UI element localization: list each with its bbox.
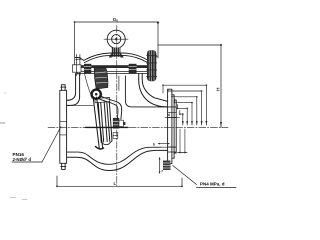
right flange raised face	[174, 100, 176, 153]
eye bolt left	[76, 55, 80, 76]
edge mark left	[0, 122, 5, 124]
nested dim bracket 4	[175, 100, 193, 126]
svg-text:2-NØd² d: 2-NØd² d	[13, 157, 32, 162]
left flange plate	[60, 90, 67, 163]
stem flare dark wedges	[109, 53, 112, 58]
bonnet dome outer	[75, 53, 157, 60]
bonnet dome inner	[85, 55, 148, 62]
disc nut	[113, 118, 119, 128]
svg-text:PN16: PN16	[13, 152, 25, 157]
chamber right inner wall	[125, 76, 176, 107]
outlet bore bottom line	[161, 146, 176, 148]
svg-text:H: H	[215, 87, 221, 91]
right flange bolt hole top	[168, 112, 176, 117]
inlet bore bottom inner	[67, 152, 89, 156]
dimension L line	[57, 185, 182, 187]
bolt circle marks below	[178, 152, 188, 154]
centerline horizontal (pipe axis)	[48, 127, 228, 129]
small dim d2 (bolt hole)	[165, 116, 180, 118]
seat top edge	[92, 97, 99, 99]
cap circle outer	[107, 30, 125, 48]
disc lock box	[113, 133, 118, 139]
hinge boss	[94, 68, 108, 90]
hinge pivot	[92, 90, 101, 99]
small dim f	[159, 158, 161, 173]
svg-text:D0: D0	[113, 17, 118, 23]
cap crosshair	[104, 38, 128, 40]
left flange bolt hole lines	[60, 122, 67, 135]
dimension Do right extension	[157, 22, 159, 58]
body left wall outer	[67, 74, 76, 101]
seat bottom dark	[96, 147, 104, 149]
inlet bore top line	[67, 104, 94, 106]
cap circle inner	[112, 35, 121, 44]
svg-text:PN4 MPa, d: PN4 MPa, d	[200, 182, 225, 187]
nested dim bracket 2	[168, 89, 202, 125]
right flange mid step	[172, 95, 174, 158]
disc nut step	[119, 120, 123, 126]
body left wall inner	[67, 74, 80, 106]
dimension H top extension	[158, 44, 221, 46]
small dim b	[159, 143, 170, 145]
centerline heavy segment at disc	[86, 126, 129, 128]
body right wall inner	[139, 74, 168, 107]
svg-text:d: d	[168, 113, 170, 117]
right flange bolt hole bottom	[168, 147, 176, 152]
stem threaded	[112, 48, 121, 57]
disc holder cap	[95, 97, 110, 102]
disc	[98, 102, 112, 143]
svg-text:L: L	[114, 181, 117, 186]
leader PN16	[42, 127, 61, 163]
body right wall outer	[142, 74, 167, 102]
bottom flange bolt dark	[163, 161, 171, 171]
right flange back plate	[168, 89, 172, 163]
scan speck top left	[5, 92, 7, 94]
chamber inner line right of centerline	[118, 76, 120, 91]
dimension H line	[220, 45, 222, 127]
flange bolt left	[84, 64, 91, 74]
inlet hub top line	[67, 99, 71, 101]
flange bolt right	[129, 64, 137, 74]
scan marks bottom left	[10, 198, 27, 200]
nested dim bracket 1	[163, 85, 206, 125]
nested dim bracket 3	[172, 95, 197, 126]
hinge arm	[101, 96, 122, 119]
nested dim bracket 6	[180, 111, 183, 126]
left flange bottom stub	[61, 163, 66, 169]
body bottom inner	[88, 147, 161, 164]
nested dim bracket 5	[177, 105, 187, 126]
centerline vertical (valve axis)	[116, 26, 118, 187]
chamber left inner line	[85, 74, 93, 98]
left flange top stub	[61, 85, 66, 91]
body top flange	[77, 66, 150, 74]
dimension Do line	[75, 21, 158, 23]
dimension Do end dots	[74, 21, 76, 23]
eye bolt right	[147, 50, 156, 81]
disc bottom edge	[101, 141, 112, 145]
bonnet flange	[77, 65, 150, 68]
leader PN4	[173, 166, 197, 185]
seat ring	[93, 97, 103, 148]
inlet bore bottom / body bottom outer	[67, 150, 168, 170]
dimension Do left extension	[74, 22, 76, 70]
